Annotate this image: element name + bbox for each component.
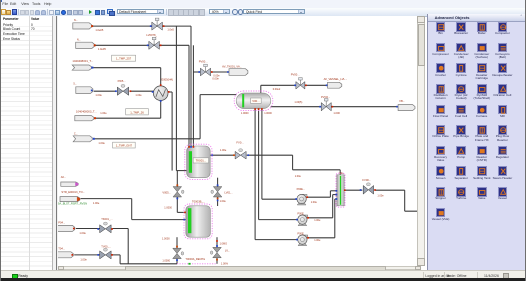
feed flag 1040408003	[74, 115, 93, 120]
tank T002 selected	[185, 205, 210, 236]
svg-text:1040408001_T...: 1040408001_T...	[72, 58, 93, 62]
valve FV001 on tank T001 outlet	[235, 151, 240, 159]
flag STR_E00013 feed to tank T002	[60, 196, 80, 201]
valve LV010 below tank T001 right	[213, 186, 222, 191]
feed flag S5	[75, 86, 92, 93]
svg-text:SP04...: SP04...	[58, 220, 65, 224]
wire pump P002 outlet up to manifold	[307, 216, 333, 218]
wire tank T002 bottom-left to valve V0045 and recirculation header	[176, 237, 178, 248]
node drum bottom ports	[254, 108, 256, 110]
svg-text:1.00e: 1.00e	[314, 219, 321, 222]
product flag VB	[396, 105, 398, 107]
svg-text:1.0e05: 1.0e05	[98, 46, 106, 50]
wire drum bottom outlet 3 to pump P001	[260, 108, 262, 199]
feed flag ST04	[56, 251, 73, 257]
label box in V001	[250, 98, 261, 103]
tank T001 selected	[186, 146, 210, 178]
wire feed6 up to drum V001 left inlet	[94, 137, 199, 139]
svg-text:0.00e2: 0.00e2	[272, 88, 280, 91]
svg-text:1.0MG: 1.0MG	[219, 242, 227, 245]
wire drum bottom outlet 1 to pump P003	[254, 108, 256, 239]
svg-text:ST04...: ST04...	[58, 246, 65, 250]
svg-text:T0003B_...: T0003B_...	[192, 199, 205, 203]
svg-text:MSA_BLST_RSRT_RVSN: MSA_BLST_RSRT_RVSN	[58, 201, 87, 205]
svg-text:TV00_...: TV00_...	[101, 244, 111, 248]
valve PV002 on drum V001 top outlet	[295, 81, 299, 88]
wire manifold outlet through valve FV007 to canvas edge	[344, 189, 362, 191]
svg-text:1.00e: 1.00e	[219, 199, 226, 202]
svg-text:PVC0...: PVC0...	[321, 95, 331, 99]
svg-text:PV00...: PV00...	[290, 72, 299, 76]
valve TV001 on feed SP04	[99, 224, 105, 232]
feed flag 1040408001	[72, 65, 91, 70]
svg-text:P00E...: P00E...	[296, 187, 305, 191]
valve V005 below tank T001 left	[173, 186, 182, 191]
valve PVC001 on drum V001 liquid outlet	[321, 102, 326, 110]
svg-text:AV_TK001_VA...: AV_TK001_VA...	[222, 64, 242, 68]
node T001 top ports	[188, 146, 190, 148]
svg-text:TK001...: TK001...	[195, 158, 206, 162]
wire selected recirculation stream T0003A_RECHG	[177, 262, 217, 264]
svg-text:1.0000: 1.0000	[162, 237, 170, 240]
svg-text:1.0e5: 1.0e5	[167, 27, 174, 31]
feed flag N2	[75, 42, 94, 48]
wire flag MSA feed to tank T002 left inlet	[80, 197, 131, 199]
product flag AV_TK001_VA	[227, 71, 229, 73]
annotation box 1_TMP_26	[125, 108, 148, 114]
svg-text:1.00(5): 1.00(5)	[294, 101, 302, 104]
svg-text:LV0078_: LV0078_	[146, 32, 157, 36]
svg-text:N...: N...	[77, 37, 81, 41]
svg-text:1.00e: 1.00e	[80, 257, 87, 261]
svg-text:1.00e: 1.00e	[219, 148, 226, 152]
svg-text:1.0000: 1.0000	[162, 259, 170, 262]
svg-text:1.0000: 1.0000	[164, 206, 172, 209]
svg-text:P00E: P00E	[297, 231, 304, 235]
wire feed4 to valve V3 to E005 left	[93, 90, 116, 92]
svg-text:1.00e: 1.00e	[93, 200, 100, 204]
wire drum bottom outlet 2 to pump P002	[257, 108, 259, 219]
svg-text:V005...: V005...	[162, 190, 171, 194]
heat exchanger E005	[153, 85, 168, 100]
svg-text:1.00e: 1.00e	[135, 94, 142, 97]
valve TV002 on feed ST04	[99, 250, 105, 258]
svg-text:C...: C...	[74, 131, 78, 135]
wire E005 right outlet down to tank T001 left line	[168, 91, 172, 93]
svg-text:1040408003_T...: 1040408003_T...	[76, 109, 97, 113]
wire feed ST04 through valve TV002 down and right	[74, 253, 100, 255]
valve V1 control valve	[151, 22, 156, 30]
svg-text:N...: N...	[74, 18, 78, 22]
svg-text:1.00e: 1.00e	[294, 175, 301, 178]
svg-text:1.00%: 1.00%	[220, 262, 228, 265]
feed flag N1	[72, 22, 91, 28]
node T002 ports	[184, 211, 186, 213]
svg-text:1.0e05: 1.0e05	[95, 27, 103, 31]
wire to valve PV001	[193, 71, 200, 73]
node manifold inlet ports	[335, 190, 337, 192]
wire feed5 to E005 bottom	[95, 117, 160, 119]
drum vessel V001 selected	[236, 93, 271, 109]
svg-text:PV00...: PV00...	[198, 59, 207, 63]
valve V0045 below tank T002 left	[172, 248, 181, 253]
wire tank T002 bottom-right to valve LV011	[216, 237, 218, 247]
svg-text:1.0000: 1.0000	[264, 112, 272, 115]
flag A0 with selected tip	[60, 182, 77, 186]
valve V2 control valve	[148, 41, 153, 49]
wire tank T001 right outlet through valve FV001 to manifold top	[210, 154, 234, 156]
svg-text:TK001_...: TK001_...	[101, 217, 112, 221]
wire feed1 to valve V1 and down to tank T001 top	[90, 25, 191, 27]
svg-text:1.00e: 1.00e	[314, 239, 321, 242]
pump P001	[297, 203, 306, 205]
annotation box 1_TMP_GN7	[112, 142, 135, 148]
wire feed3 to heat exchanger E005 top	[93, 66, 160, 68]
svg-text:1.00e: 1.00e	[377, 194, 384, 197]
level gauge green line in V001	[242, 94, 244, 107]
svg-text:0.00e: 0.00e	[213, 74, 220, 77]
wire pump P001 outlet up to manifold	[306, 196, 330, 198]
wire tank T001 bottom-right valve to tank T002 top-right	[216, 177, 218, 186]
svg-text:1.00e: 1.00e	[98, 141, 105, 145]
svg-text:VE...: VE...	[339, 170, 345, 174]
product flag AV_VESSEL_LVL	[325, 84, 327, 86]
wire branch down at x176 to tank T001 left inlet	[175, 26, 177, 170]
valve LV011 below tank T002 right	[212, 247, 221, 252]
svg-text:1.000: 1.000	[333, 110, 340, 114]
manifold header VE selected	[336, 174, 343, 205]
svg-text:P00E: P00E	[297, 211, 304, 215]
svg-text:1_TMP_257: 1_TMP_257	[116, 56, 132, 60]
valve FV007 on manifold outlet	[363, 185, 368, 194]
svg-text:1.00e: 1.00e	[100, 111, 107, 115]
wire valve PV001 outlet to flag AV_TK001	[210, 71, 228, 73]
svg-text:STR_E00013_TO...: STR_E00013_TO...	[61, 190, 85, 194]
svg-text:T0003A_RECHG: T0003A_RECHG	[185, 256, 205, 260]
level green line in manifold	[339, 175, 340, 204]
svg-text:1_TMP_GN7: 1_TMP_GN7	[115, 143, 132, 147]
wire drum V001 right outlet to valve PVC001 and flag VB	[270, 105, 320, 107]
svg-text:5...: 5...	[73, 81, 77, 85]
svg-text:1.0000: 1.0000	[240, 112, 248, 115]
svg-text:V00...: V00...	[252, 98, 259, 102]
wire pump P003 outlet up to manifold	[307, 236, 335, 238]
wire second drop to tank T001 top	[192, 45, 194, 146]
wire feed SP04 through valve TV001 down to recirculation line	[75, 227, 99, 229]
valve V3 feed valve to E005	[117, 87, 123, 95]
pump P002	[298, 223, 307, 225]
label box in T001	[193, 157, 208, 162]
wire tank T001 bottom-left valve to tank T002 top-left	[176, 170, 178, 186]
svg-text:LV01...: LV01...	[224, 190, 233, 194]
svg-text:1_TMP_26: 1_TMP_26	[130, 110, 144, 114]
svg-text:1.00e: 1.00e	[95, 93, 102, 97]
svg-text:1.00e: 1.00e	[79, 231, 86, 235]
valve PV001 on tank T001 vapor line	[200, 68, 205, 76]
svg-text:VB...: VB...	[399, 99, 405, 103]
svg-text:A0...: A0...	[60, 175, 66, 179]
feed flag C1	[73, 135, 92, 141]
svg-text:LV...: LV...	[224, 248, 229, 252]
feed flag SP04	[56, 225, 74, 231]
svg-text:E005(H4): E005(H4)	[161, 77, 173, 81]
wire feed2 to valve V2 and down to tank T001 top	[93, 44, 189, 46]
pump P003	[298, 243, 307, 245]
svg-text:PID5...: PID5...	[117, 78, 125, 82]
svg-text:AV_VESSEL_LVL...: AV_VESSEL_LVL...	[323, 76, 347, 80]
level gauge green bar in T002	[188, 208, 191, 233]
svg-text:FV00...: FV00...	[362, 177, 371, 181]
wire drum V001 top outlet to valve and flag	[259, 85, 261, 93]
level gauge green bar in T001	[188, 151, 191, 173]
annotation box 1_TMP_257	[111, 55, 135, 61]
svg-text:FV0...: FV0...	[236, 140, 243, 144]
svg-text:1.00e: 1.00e	[310, 201, 317, 204]
